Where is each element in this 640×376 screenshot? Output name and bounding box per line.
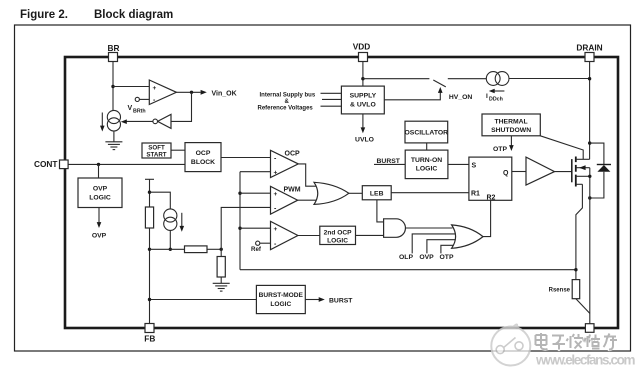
arrow down (FB current source) xyxy=(180,213,185,232)
svg-text:DDch: DDch xyxy=(489,97,503,103)
node divider bottom left xyxy=(148,248,151,251)
or-gate OR1 xyxy=(314,182,349,204)
svg-text:Reference Voltages: Reference Voltages xyxy=(258,105,314,111)
wire OSCILLATOR to TURN-ON LOGIC xyxy=(426,143,428,150)
label VBRth xyxy=(128,105,146,115)
wire VBRth to - input xyxy=(139,98,149,100)
wire comparator to 2nd OCP LOGIC xyxy=(298,235,320,237)
svg-text:SOFT: SOFT xyxy=(148,145,165,152)
wire source to Rsense xyxy=(576,184,583,279)
svg-text:OVP: OVP xyxy=(93,186,108,193)
wire LEB to R1 input xyxy=(391,192,469,194)
svg-text:START: START xyxy=(146,152,166,159)
svg-text:+: + xyxy=(274,191,278,198)
node rail branch xyxy=(148,191,151,194)
driver buffer xyxy=(526,157,555,185)
wire branch to FB current source xyxy=(150,192,171,209)
svg-text:BR: BR xyxy=(108,43,120,53)
svg-text:BLOCK: BLOCK xyxy=(191,159,215,166)
IC boundary box xyxy=(65,57,618,328)
inverter U2 xyxy=(153,114,171,128)
svg-text:Rsense: Rsense xyxy=(549,287,571,293)
wire thermal sense diagonal xyxy=(540,136,583,160)
svg-text:UVLO: UVLO xyxy=(355,137,374,144)
node VDD branch xyxy=(361,77,364,80)
svg-text:LEB: LEB xyxy=(370,191,384,198)
wire current sense line xyxy=(240,269,576,271)
svg-text:OVP: OVP xyxy=(419,254,434,261)
svg-text:I: I xyxy=(486,93,488,100)
svg-text:SUPPLY: SUPPLY xyxy=(350,92,377,99)
wire OCP output to OR1 xyxy=(298,164,317,186)
wire OLP input xyxy=(412,234,456,254)
watermark logo xyxy=(491,324,530,365)
svg-text:HV_ON: HV_ON xyxy=(449,94,473,101)
current source (FB) xyxy=(164,209,177,231)
terminal VBRth xyxy=(135,97,139,101)
svg-text:Ref: Ref xyxy=(251,246,262,253)
wire down to OVP LOGIC xyxy=(98,164,100,178)
node CONT branch xyxy=(97,163,100,166)
node PWM + xyxy=(238,192,241,195)
wire resistor to ground xyxy=(220,277,222,283)
wire LEB branch to AND xyxy=(377,200,384,222)
wire to PWM + input xyxy=(240,192,271,194)
wire current source bottom xyxy=(169,230,171,249)
pin VDD xyxy=(353,41,371,61)
wire bus 1 xyxy=(321,92,342,94)
svg-text:TURN-ON: TURN-ON xyxy=(411,157,442,164)
svg-text:R1: R1 xyxy=(471,191,480,198)
svg-text:OTP: OTP xyxy=(440,254,454,261)
label IDDch xyxy=(486,93,503,103)
svg-text:2nd OCP: 2nd OCP xyxy=(324,229,352,236)
wire PWM output to OR1 xyxy=(298,199,317,201)
svg-text:BURST: BURST xyxy=(329,297,353,304)
svg-text:OCP: OCP xyxy=(196,150,211,157)
block SOFT START xyxy=(142,143,171,159)
wire Ref to - input xyxy=(260,242,271,244)
node BR junction xyxy=(111,85,114,88)
arrow Vin_OK xyxy=(201,90,207,95)
block TURN-ON LOGIC xyxy=(405,150,448,179)
svg-text:LOGIC: LOGIC xyxy=(270,301,291,308)
pin BR xyxy=(108,43,120,62)
svg-text:FB: FB xyxy=(144,334,155,344)
svg-text:PWM: PWM xyxy=(284,187,301,194)
resistor R (to ground) xyxy=(217,257,225,278)
svg-text:www.elecfans.com: www.elecfans.com xyxy=(535,353,636,368)
svg-text:LOGIC: LOGIC xyxy=(416,166,438,173)
wire OVP input xyxy=(427,240,459,254)
resistor Rsense xyxy=(572,280,580,299)
terminal Ref xyxy=(256,241,260,245)
svg-text:BURST: BURST xyxy=(377,158,401,165)
arrow OTP out xyxy=(493,136,514,153)
wire bus 2 xyxy=(322,98,341,100)
wire divider bottom xyxy=(150,248,185,250)
wire node to comparator + input xyxy=(113,86,149,88)
svg-text:THERMAL: THERMAL xyxy=(494,118,527,125)
wire SOFT START to OCP BLOCK xyxy=(171,149,185,151)
wire OR1 to LEB xyxy=(349,192,363,194)
wire body rail to GND pad xyxy=(589,168,591,324)
transistor Q1 power MOSFET xyxy=(572,157,590,187)
wire to 2nd OCP comparator + input xyxy=(240,227,271,229)
wire Q to driver xyxy=(512,171,526,173)
node drain diode branch xyxy=(588,141,591,144)
node FB burst tap xyxy=(148,298,151,301)
wire feedback to inverter xyxy=(171,92,192,121)
block OVP LOGIC xyxy=(78,178,122,208)
svg-text:Block diagram: Block diagram xyxy=(94,9,173,21)
svg-text:OSCILLATOR: OSCILLATOR xyxy=(405,130,449,137)
current source IDDch xyxy=(486,72,509,86)
block 2nd OCP LOGIC xyxy=(320,226,356,244)
wire VDD node to switch xyxy=(363,78,430,80)
and-gate AND1 xyxy=(384,219,406,238)
node drain top xyxy=(588,77,591,80)
pin GND xyxy=(582,324,599,345)
node source-diode junction xyxy=(588,196,591,199)
wire Rsense to GND pad xyxy=(576,299,590,314)
svg-text:CONT: CONT xyxy=(34,159,58,169)
arrow UVLO out xyxy=(355,114,374,144)
arrow IDDch direction xyxy=(489,89,505,94)
wire BR pad down to node xyxy=(112,62,114,111)
wire node up to PWM - input xyxy=(221,207,270,249)
arrow down (BR current source) xyxy=(100,113,105,132)
block LEB xyxy=(362,186,391,200)
resistor R (divider upper) xyxy=(145,207,153,228)
svg-text:VDD: VDD xyxy=(353,41,371,51)
wire FB burst line xyxy=(150,299,257,301)
wire AND1 to OR2 xyxy=(406,227,453,229)
comparator Vin_OK xyxy=(149,80,176,105)
wire bus 3 xyxy=(321,105,342,107)
arrow OVP out xyxy=(92,208,107,240)
block THERMAL SHUTDOWN xyxy=(482,114,540,136)
node divider mid xyxy=(220,248,223,251)
svg-text:DRAIN: DRAIN xyxy=(576,42,602,52)
latch SR xyxy=(469,157,512,201)
wire resistor to node xyxy=(207,248,221,250)
node 2nd OCP + xyxy=(238,227,241,230)
wire driver to gate xyxy=(555,171,572,173)
svg-text:+: + xyxy=(274,170,278,177)
or-gate OR2 xyxy=(452,225,483,248)
svg-text:BURST-MODE: BURST-MODE xyxy=(259,292,304,299)
block OCP BLOCK xyxy=(185,143,221,172)
svg-text:V: V xyxy=(128,105,133,112)
wire OR2 output up to R2 xyxy=(483,200,491,236)
svg-text:Q: Q xyxy=(503,170,509,177)
svg-text:OVP: OVP xyxy=(92,233,107,240)
wire VDD down xyxy=(362,62,364,87)
arrow HV_ON control xyxy=(384,87,472,101)
node Vin_OK xyxy=(190,91,193,94)
resistor R (horizontal) xyxy=(185,246,208,253)
svg-text:Internal Supply bus: Internal Supply bus xyxy=(260,93,316,99)
watermark chinese text xyxy=(536,333,618,350)
svg-text:+: + xyxy=(153,85,157,92)
wire node down to resistor xyxy=(220,249,222,256)
pin FB xyxy=(144,324,155,344)
svg-text:& UVLO: & UVLO xyxy=(350,101,376,108)
wire diode branch top xyxy=(590,143,604,164)
svg-text:LOGIC: LOGIC xyxy=(327,237,348,244)
feed line vertical (current sense bus) xyxy=(239,172,241,270)
wire CONT line xyxy=(68,163,185,165)
svg-text:Vin_OK: Vin_OK xyxy=(212,90,237,97)
current source (BR) xyxy=(107,110,120,131)
block BURST-MODE LOGIC xyxy=(256,285,305,313)
switch HV_ON blade xyxy=(433,80,446,87)
wire to OCP + input xyxy=(240,171,271,173)
block OSCILLATOR xyxy=(405,121,449,143)
svg-text:Figure 2.: Figure 2. xyxy=(20,9,68,21)
pin DRAIN xyxy=(576,42,602,61)
FB divider rail with top cap xyxy=(145,179,154,323)
svg-text:S: S xyxy=(472,162,477,169)
wire TURN-ON LOGIC to S input xyxy=(448,163,469,165)
svg-text:&: & xyxy=(285,99,290,105)
arrow BURST out xyxy=(305,297,353,304)
diode body D1 xyxy=(597,165,611,172)
ground (divider) xyxy=(213,283,230,291)
svg-text:BRth: BRth xyxy=(133,109,146,115)
wire diode anode down xyxy=(590,172,604,198)
comparator 2nd OCP xyxy=(271,221,298,249)
svg-text:OCP: OCP xyxy=(285,151,301,158)
wire 2nd OCP LOGIC to AND xyxy=(356,234,384,236)
wire OCP BLOCK to OCP comparator - input xyxy=(221,157,271,159)
comparator OCP xyxy=(271,150,301,177)
svg-text:+: + xyxy=(274,226,278,233)
node current source bottom xyxy=(169,248,172,251)
wire current source to drain rail xyxy=(509,78,590,80)
pin CONT xyxy=(34,159,68,169)
wire current source to ground xyxy=(113,131,115,142)
svg-text:OTP: OTP xyxy=(493,146,507,153)
svg-text:SHUTDOWN: SHUTDOWN xyxy=(491,127,531,134)
comparator PWM xyxy=(271,186,301,214)
wire OTP input xyxy=(441,245,458,253)
label internal supply bus xyxy=(258,93,316,112)
node sense line tap xyxy=(574,268,577,271)
svg-text:OLP: OLP xyxy=(399,254,413,261)
wire inverter to current source with arrow xyxy=(121,119,153,124)
svg-text:R2: R2 xyxy=(487,195,496,202)
wire comparator output xyxy=(176,91,200,93)
svg-text:LOGIC: LOGIC xyxy=(89,195,111,202)
node source-body tie xyxy=(588,175,591,178)
wire DRAIN rail xyxy=(589,62,591,160)
block SUPPLY & UVLO xyxy=(341,86,384,114)
ground (BR) xyxy=(105,142,122,150)
wire switch to current source xyxy=(448,78,487,80)
wire BURST stub xyxy=(374,163,405,165)
